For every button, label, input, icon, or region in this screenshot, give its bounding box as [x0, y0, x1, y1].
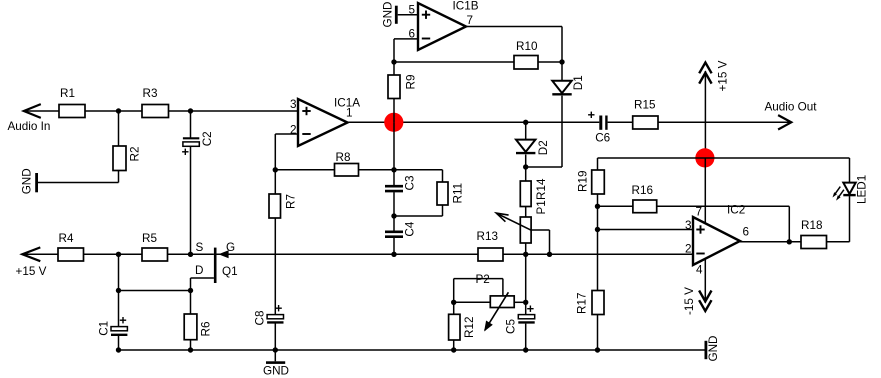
svg-text:R3: R3	[143, 87, 158, 100]
junction bus/P1-wiper	[547, 252, 552, 257]
wire P1 bottom	[525, 243, 527, 254]
junction bus/R17	[595, 347, 600, 352]
diode D2	[516, 140, 550, 156]
svg-text:R5: R5	[142, 232, 157, 245]
svg-text:5: 5	[408, 4, 415, 17]
op-amp IC1B	[418, 0, 479, 50]
svg-text:+15 V: +15 V	[717, 60, 730, 91]
wire red node to C3	[393, 122, 395, 185]
wire R14 top	[525, 167, 527, 181]
node S label	[196, 241, 204, 254]
junction R1/R2/R3	[116, 108, 121, 113]
wire R8 to C3 node	[359, 169, 395, 171]
resistor R17	[576, 291, 605, 315]
resistor R6	[184, 314, 213, 340]
wire IC2 pin7	[704, 158, 706, 223]
Q1 gate arrow	[218, 250, 228, 258]
resistor R5	[142, 232, 168, 261]
resistor R14	[520, 178, 548, 206]
pin 4 label IC2	[696, 264, 703, 277]
ground GND (right)	[705, 336, 721, 362]
capacitor C1	[98, 317, 128, 336]
pin 7 label IC2	[696, 206, 703, 219]
svg-text:Q1: Q1	[222, 265, 238, 278]
svg-text:R15: R15	[634, 99, 656, 112]
junction main-line/D2	[523, 120, 528, 125]
ground GND (under C8)	[263, 361, 289, 377]
junction C3/C4/R11	[391, 213, 396, 218]
svg-text:C8: C8	[254, 311, 267, 326]
wire junction to R10	[394, 61, 514, 63]
node red junction B	[695, 148, 714, 167]
wire GND to IC1B pin5	[398, 14, 418, 16]
junction R9/R10/pin6	[391, 59, 396, 64]
svg-text:C2: C2	[201, 131, 214, 146]
pin 7 label IC1B	[467, 14, 474, 27]
wire R3 to IC1A pin3	[169, 110, 299, 112]
wire D1 bottom down and left	[526, 96, 562, 167]
junction R10/D1/IC1B-out	[559, 59, 564, 64]
potentiometer P2	[476, 273, 515, 308]
wire R19-R17 column	[597, 206, 599, 290]
resistor R11	[437, 182, 465, 205]
wire node B row	[598, 157, 850, 159]
wire R14 to P1	[525, 207, 527, 218]
junction D1/D2/R14	[523, 164, 528, 169]
svg-text:Audio Out: Audio Out	[765, 101, 818, 114]
svg-text:R7: R7	[285, 194, 298, 209]
wire D2 top	[525, 122, 527, 139]
junction bus/C1	[116, 347, 121, 352]
wire Q1 gate bus	[217, 253, 479, 255]
svg-text:C3: C3	[404, 176, 417, 191]
wire LED1 top	[849, 158, 851, 183]
svg-text:C6: C6	[595, 132, 610, 145]
pin 2 label IC1A	[290, 124, 297, 137]
svg-text:R19: R19	[577, 171, 590, 192]
junction drain/R6	[188, 288, 193, 293]
svg-text:R1: R1	[60, 87, 75, 100]
wire C1 column top	[118, 254, 120, 290]
wire R13 to IC2 pin2	[503, 253, 693, 255]
wire C2 top	[190, 111, 192, 138]
wire D1 top	[561, 62, 563, 81]
junction pin2/R7/R8	[273, 167, 278, 172]
svg-text:S: S	[196, 241, 204, 254]
pin 2 label IC2	[685, 243, 692, 256]
pin 5 label IC1B	[408, 4, 415, 17]
junction R3/C2	[188, 108, 193, 113]
power +15 V arrow	[699, 60, 729, 91]
svg-text:D1: D1	[572, 75, 585, 90]
svg-text:D: D	[195, 264, 203, 277]
junction IC2-out/R18/feedback	[787, 239, 792, 244]
svg-text:C4: C4	[404, 221, 417, 236]
pin 6 label IC1B	[408, 28, 415, 41]
wire R9 bottom to red node	[393, 99, 395, 123]
wire Q1 drain	[191, 278, 214, 291]
wire +15V to red node B	[704, 71, 706, 158]
svg-text:GND: GND	[707, 336, 720, 362]
wire R11 top loop	[394, 170, 443, 182]
resistor R18	[801, 219, 827, 249]
capacitor C6	[588, 112, 610, 145]
potentiometer P1	[520, 200, 548, 243]
wire R2 bottom to GND	[37, 171, 118, 183]
resistor R4	[58, 232, 84, 261]
ground GND (input)	[21, 168, 38, 194]
svg-text:C1: C1	[98, 321, 111, 336]
svg-text:7: 7	[696, 206, 703, 219]
wire drain row	[119, 290, 191, 292]
node/net Audio In input arrow	[8, 104, 51, 133]
wire R5 to Q1 source	[168, 253, 214, 255]
svg-text:4: 4	[696, 264, 703, 277]
pin 3 label IC2	[685, 219, 692, 232]
junction gate-bus/C4	[391, 252, 396, 257]
wire P1 wiper to bus	[531, 230, 549, 254]
wire R1 to R3	[85, 110, 142, 112]
svg-text:+15 V: +15 V	[16, 265, 47, 278]
wire R7 top	[274, 170, 276, 194]
pin 1 label IC1A	[346, 107, 353, 120]
wire R10 to D1 top	[538, 61, 562, 63]
svg-text:6: 6	[743, 226, 750, 239]
wire P2 right	[514, 301, 526, 303]
resistor R16	[632, 184, 657, 213]
node D label	[195, 264, 203, 277]
wire R17 bottom	[597, 315, 599, 351]
svg-text:R4: R4	[59, 232, 74, 245]
node G label	[226, 241, 235, 254]
power +15 V input arrow	[16, 247, 47, 278]
svg-text:GND: GND	[381, 2, 394, 28]
node/net Audio Out arrow	[765, 101, 818, 130]
wire R6 bottom	[190, 340, 192, 350]
op-amp IC2	[693, 204, 745, 266]
P2 wiper arrow	[484, 292, 508, 331]
junction C1 top	[116, 288, 121, 293]
svg-text:R2: R2	[129, 147, 142, 162]
resistor R1	[59, 87, 85, 118]
wire R4 to R5	[84, 253, 143, 255]
svg-text:R13: R13	[477, 230, 498, 243]
wire +15V to R4	[22, 253, 58, 255]
wire IC2 output	[740, 241, 801, 243]
wire IC2 pin3	[598, 229, 694, 231]
wire C2 bottom to S node	[190, 146, 192, 254]
wire feedback row left	[598, 205, 633, 207]
wire R15 to Audio Out	[658, 121, 791, 123]
svg-text:R18: R18	[801, 219, 822, 232]
junction R5/C2/Q1-S	[188, 252, 193, 257]
svg-text:3: 3	[685, 219, 692, 232]
wire Audio In to R1	[24, 110, 59, 112]
op-amp IC1A	[298, 97, 360, 147]
wire R9 top	[393, 62, 395, 75]
transistor Q1	[214, 248, 238, 283]
wire C1 bottom	[118, 336, 120, 350]
resistor R13	[477, 230, 504, 261]
wire R2 top	[118, 111, 120, 146]
wire R6 top	[190, 291, 192, 315]
svg-text:C5: C5	[504, 319, 517, 334]
wire R7 to C8	[274, 218, 276, 315]
resistor R7	[269, 194, 298, 218]
ground GND (IC1B pin5)	[381, 2, 397, 28]
wire P2 top loop	[454, 279, 503, 303]
svg-text:R10: R10	[516, 40, 538, 53]
wire IC1A pin2 feedback	[275, 134, 298, 170]
capacitor C5	[504, 306, 534, 335]
wire P2 left	[454, 301, 491, 303]
wire LED1 bottom to R18	[827, 196, 850, 242]
P1 wiper arrow	[496, 213, 531, 230]
svg-text:R6: R6	[200, 322, 213, 337]
junction bus/P1	[523, 252, 528, 257]
resistor R15	[633, 99, 658, 130]
svg-text:3: 3	[290, 98, 297, 111]
wire C5 bottom	[525, 324, 527, 350]
wire C1 top lead	[118, 291, 120, 327]
svg-text:Audio In: Audio In	[8, 120, 51, 133]
junction R19/R16	[595, 204, 600, 209]
svg-text:R12: R12	[463, 317, 476, 338]
junction bus/R12	[451, 347, 456, 352]
wire R12 bottom	[453, 340, 455, 350]
wire feedback row right	[657, 206, 790, 242]
wire to R8	[275, 169, 334, 171]
capacitor C8	[254, 305, 284, 326]
junction C5/P2	[523, 300, 528, 305]
junction bus/C8	[273, 347, 278, 352]
diode D1	[552, 75, 585, 94]
wire R19 bottom	[597, 194, 599, 206]
wire C4 to bus	[393, 238, 395, 255]
junction pin3 tap	[595, 227, 600, 232]
svg-text:IC2: IC2	[727, 204, 745, 217]
capacitor C4	[385, 221, 417, 237]
svg-text:D2: D2	[537, 140, 550, 155]
LED LED1	[843, 175, 868, 204]
svg-text:P1: P1	[535, 200, 548, 214]
wire C8 bottom	[274, 324, 276, 351]
wire R11 bottom loop	[394, 205, 443, 216]
wire bottom ground bus	[119, 349, 705, 351]
svg-text:GND: GND	[263, 365, 289, 378]
svg-text:R17: R17	[576, 293, 589, 314]
svg-text:LED1: LED1	[855, 175, 868, 204]
svg-text:P2: P2	[476, 273, 490, 286]
node red junction A	[384, 113, 403, 132]
resistor R10	[514, 40, 538, 69]
wire C3 to C4	[393, 192, 395, 231]
wire IC1B pin6	[394, 39, 418, 62]
svg-text:R8: R8	[336, 151, 351, 164]
svg-text:1: 1	[346, 107, 353, 120]
wire R19 top	[597, 158, 599, 170]
capacitor C2	[182, 131, 214, 155]
pin 6 label IC2	[743, 226, 750, 239]
LED1 emission arrows	[833, 187, 844, 201]
svg-text:R14: R14	[535, 178, 548, 200]
junction bus/R6	[188, 347, 193, 352]
resistor R2	[113, 146, 142, 171]
svg-text:GND: GND	[21, 168, 34, 194]
power -15 V arrow	[683, 287, 711, 315]
svg-text:-15 V: -15 V	[683, 287, 696, 315]
junction R4/R5/C1	[116, 252, 121, 257]
resistor R19	[577, 170, 605, 194]
resistor R8	[335, 151, 359, 176]
svg-text:7: 7	[467, 14, 474, 27]
wire to GND bar	[274, 350, 276, 361]
wire IC1B output	[466, 27, 562, 63]
wire R12 top	[453, 302, 455, 314]
svg-text:IC1B: IC1B	[453, 0, 479, 13]
svg-text:R16: R16	[632, 184, 653, 197]
wire IC1A output to C6	[348, 121, 600, 123]
junction bus/C5	[523, 347, 528, 352]
junction R12/P2	[451, 300, 456, 305]
wire IC2 pin4	[704, 259, 706, 303]
svg-text:R11: R11	[452, 183, 465, 204]
wire D2 bottom	[525, 155, 527, 168]
wire C6 to R15	[608, 121, 633, 123]
svg-text:R9: R9	[404, 75, 417, 90]
capacitor C3	[385, 176, 417, 192]
resistor R3	[142, 87, 169, 118]
junction R8/C3/R11	[391, 167, 396, 172]
resistor R12	[449, 314, 476, 340]
wire C5 column upper	[525, 254, 527, 314]
resistor R9	[388, 75, 417, 99]
pin 3 label IC1A	[290, 98, 297, 111]
